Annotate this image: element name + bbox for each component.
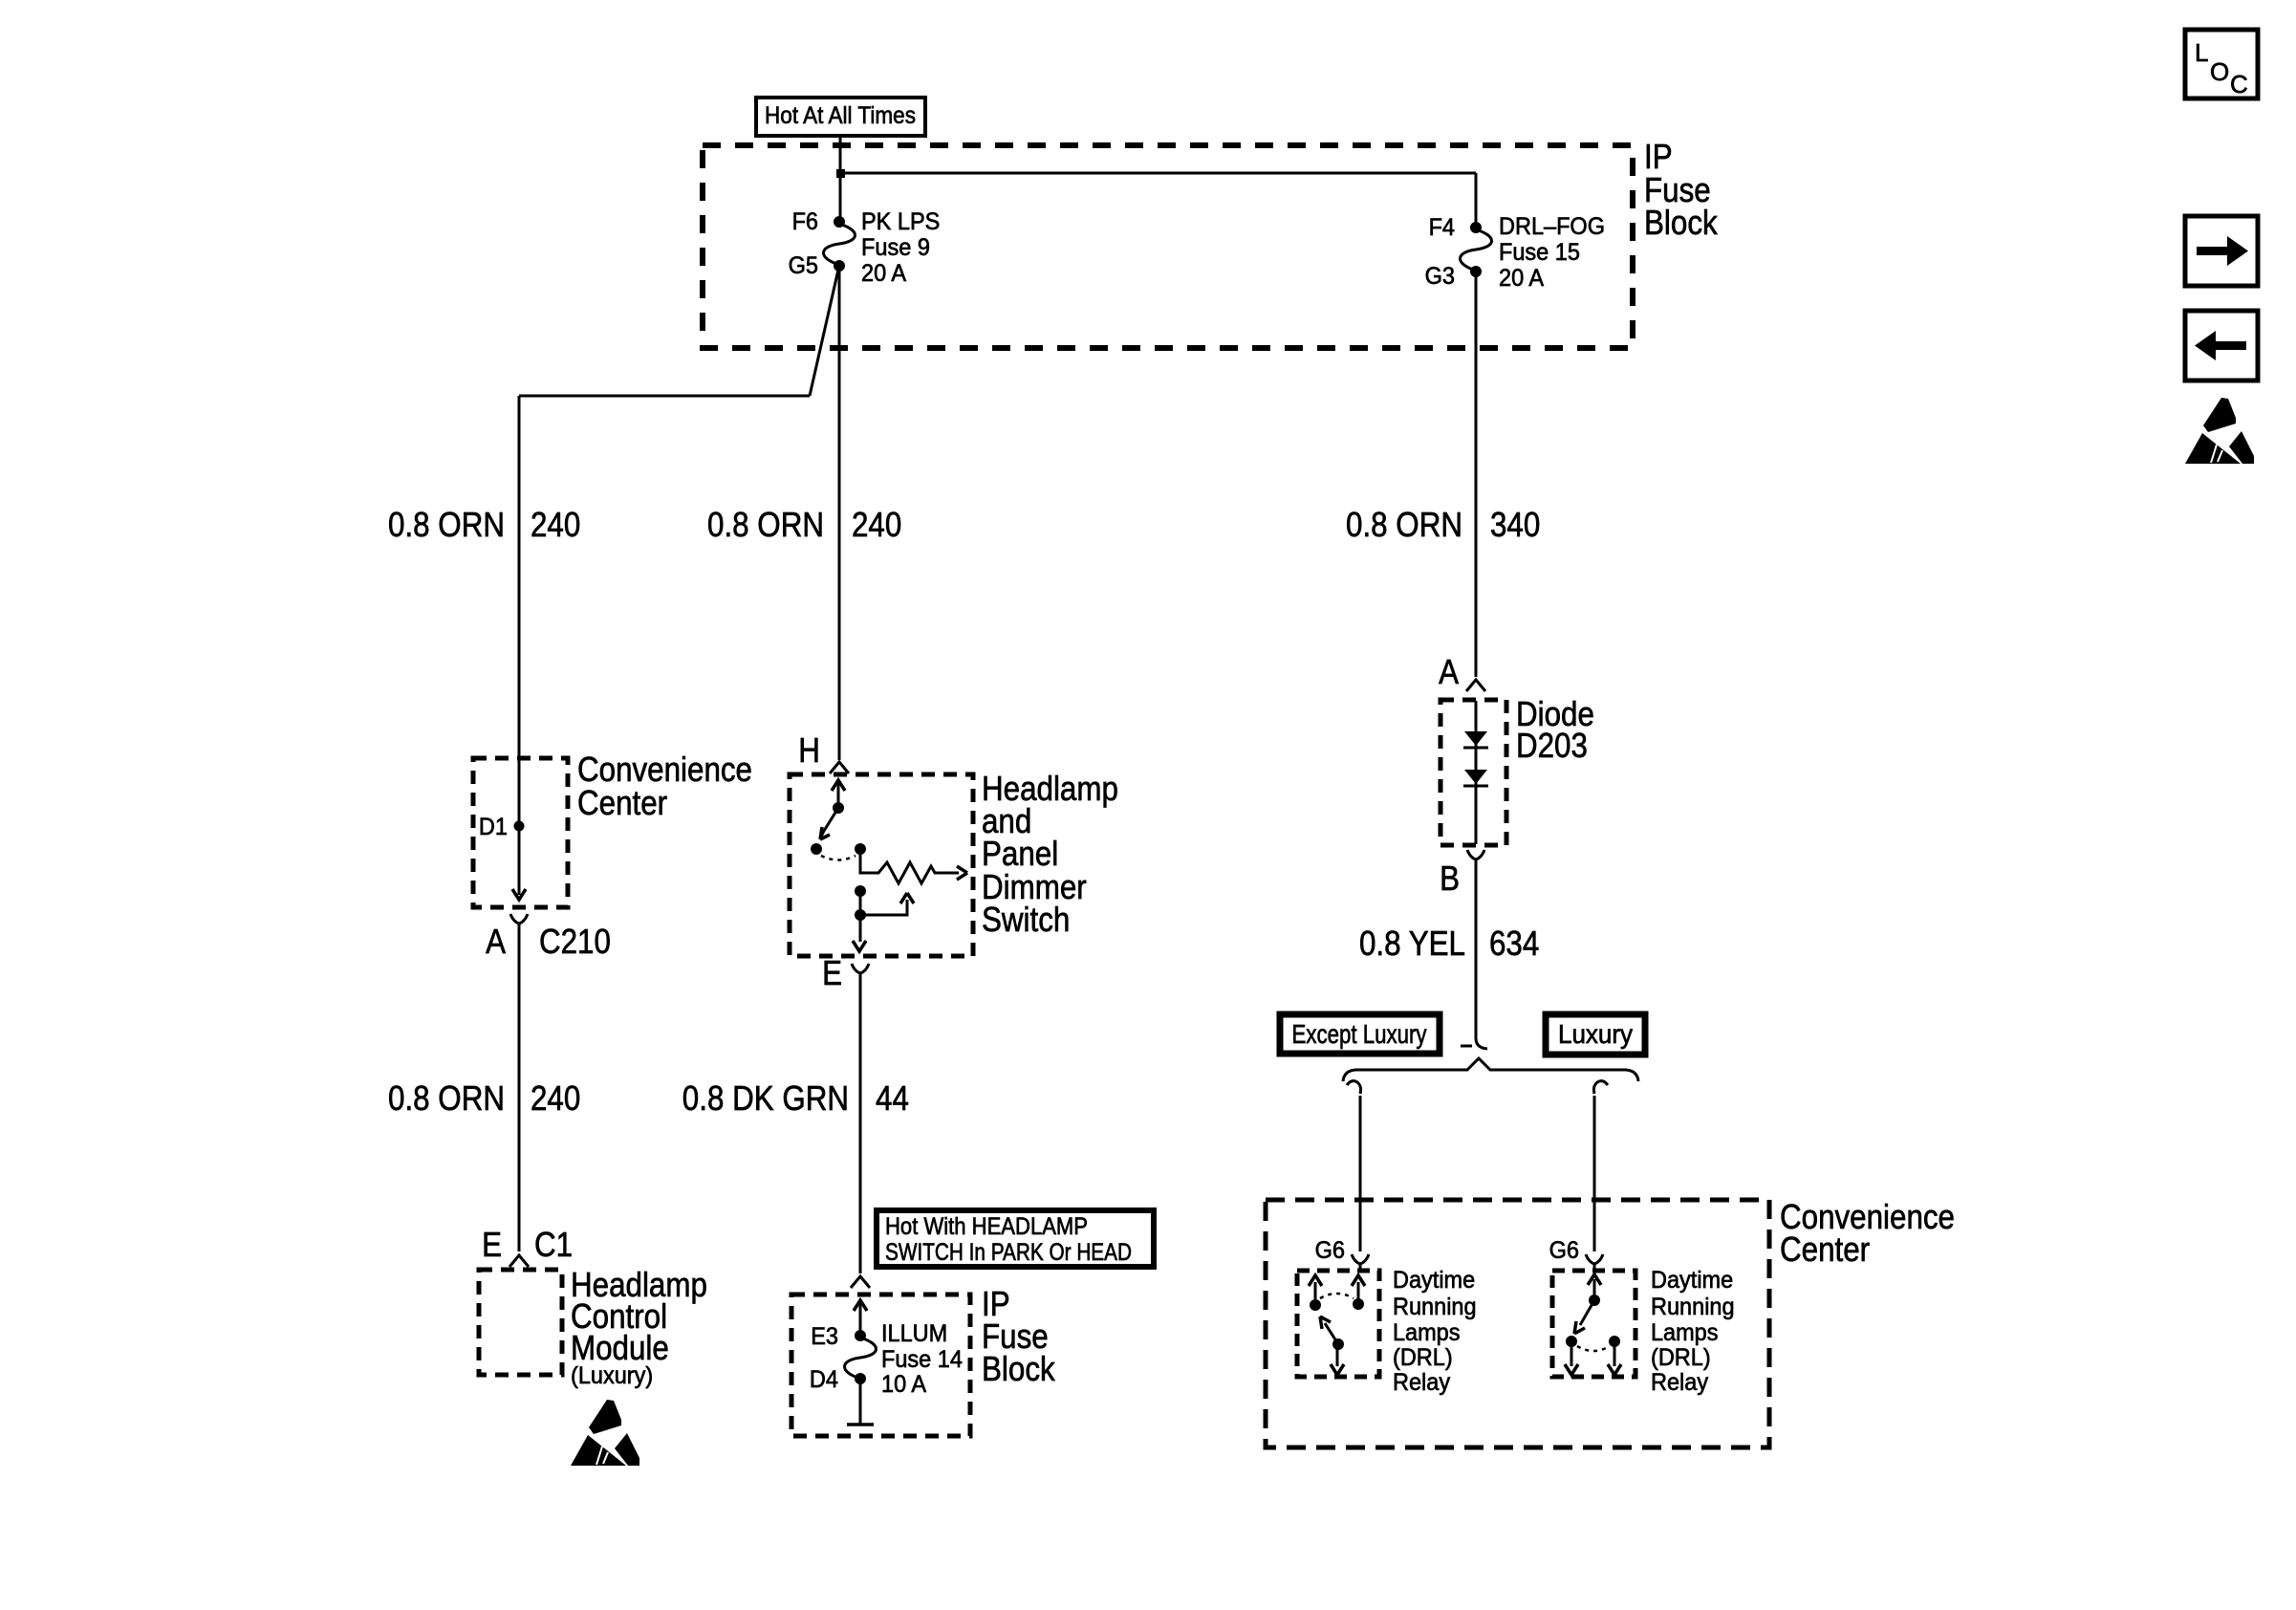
svg-text:Module: Module xyxy=(571,1328,669,1367)
switch pivot node xyxy=(833,802,844,814)
ESD symbol (right margin) xyxy=(2185,398,2254,464)
hook connector right branch xyxy=(1593,1081,1608,1094)
brace (selector) xyxy=(1343,1058,1638,1081)
svg-text:240: 240 xyxy=(531,1078,580,1118)
svg-text:0.8 ORN: 0.8 ORN xyxy=(707,505,824,544)
connector H (male) xyxy=(798,730,849,773)
dotted link arc xyxy=(1577,1346,1610,1351)
wire label 0.8 ORN 240 (center) xyxy=(707,505,901,544)
wire label 0.8 YEL 634 xyxy=(1359,924,1539,963)
svg-text:D203: D203 xyxy=(1516,726,1588,765)
wire label 0.8 ORN 340 (right) xyxy=(1346,505,1540,544)
svg-text:D1: D1 xyxy=(479,814,508,840)
wire from G5 down to H xyxy=(838,266,841,760)
relay left blade arrow xyxy=(1332,1338,1344,1350)
connector E C1 (male) xyxy=(482,1225,573,1267)
wire down from B xyxy=(1475,859,1478,1038)
svg-text:ILLUM: ILLUM xyxy=(881,1320,947,1347)
switch contact node right xyxy=(855,843,866,855)
IP Fuse Block (top) label xyxy=(1644,137,1719,242)
wire left branch to G6 xyxy=(1359,1096,1362,1251)
connector E (female, dimmer out) xyxy=(822,953,869,992)
svg-text:634: 634 xyxy=(1489,924,1539,963)
connector G6 left (female) xyxy=(1315,1237,1369,1272)
svg-text:Luxury: Luxury xyxy=(1558,1019,1633,1049)
DRL relay right label xyxy=(1651,1267,1735,1396)
connector B (female) xyxy=(1440,850,1484,898)
svg-text:F6: F6 xyxy=(792,208,818,235)
diode internal wire xyxy=(1475,701,1478,844)
Convenience Center (left) label xyxy=(577,750,752,822)
svg-text:A: A xyxy=(1439,652,1459,691)
ESD symbol (below module) xyxy=(571,1400,639,1466)
Diode D203 label xyxy=(1516,694,1594,765)
svg-text:G3: G3 xyxy=(1425,263,1455,290)
Headlamp Control Module label xyxy=(571,1265,707,1389)
svg-text:Daytime: Daytime xyxy=(1393,1267,1475,1294)
svg-text:Running: Running xyxy=(1651,1294,1735,1320)
terminal tick xyxy=(847,1423,874,1426)
arrow right icon box xyxy=(2185,216,2258,286)
diode 1 xyxy=(1464,731,1487,746)
svg-text:0.8 ORN: 0.8 ORN xyxy=(388,505,505,544)
Headlamp and Panel Dimmer Switch label xyxy=(982,769,1118,939)
wire from G3 down to A xyxy=(1475,272,1478,677)
svg-text:Fuse 15: Fuse 15 xyxy=(1499,239,1580,266)
svg-text:0.8 ORN: 0.8 ORN xyxy=(388,1078,505,1118)
svg-text:0.8 ORN: 0.8 ORN xyxy=(1346,505,1462,544)
svg-text:240: 240 xyxy=(531,505,580,544)
fuse F4/G3 DRL-FOG Fuse 15 20 A xyxy=(1425,213,1605,292)
svg-text:PK LPS: PK LPS xyxy=(861,208,940,235)
Diode D203 dashed box xyxy=(1440,700,1506,845)
relay left contact arrows up xyxy=(1314,1282,1317,1305)
svg-text:DRL–FOG: DRL–FOG xyxy=(1499,213,1605,240)
svg-text:Relay: Relay xyxy=(1393,1369,1451,1396)
svg-text:C210: C210 xyxy=(539,922,611,961)
svg-text:Running: Running xyxy=(1393,1294,1477,1320)
relay right terminal arrow up xyxy=(1593,1279,1596,1300)
switch contact node left xyxy=(811,843,822,855)
svg-text:10 A: 10 A xyxy=(881,1371,926,1398)
hook connector left branch xyxy=(1347,1081,1361,1094)
svg-text:Center: Center xyxy=(1780,1229,1870,1269)
svg-text:C: C xyxy=(2230,70,2248,98)
svg-text:20 A: 20 A xyxy=(1499,265,1544,292)
wire down from C210 xyxy=(518,924,521,1251)
svg-text:0.8 DK GRN: 0.8 DK GRN xyxy=(682,1078,849,1118)
IP Fuse Block (lower) dashed box xyxy=(791,1295,970,1436)
resistor (rheostat) xyxy=(860,849,959,883)
svg-text:E3: E3 xyxy=(811,1323,838,1350)
arrow down to E xyxy=(853,941,866,951)
relay left arrow down xyxy=(1336,1344,1339,1366)
svg-text:O: O xyxy=(2210,57,2229,86)
Convenience Center (left) dashed box xyxy=(473,758,568,907)
Headlamp Control Module dashed box xyxy=(479,1270,562,1375)
svg-text:Hot With HEADLAMP: Hot With HEADLAMP xyxy=(885,1213,1088,1240)
wire from Hot At All Times into fuse block xyxy=(839,136,842,222)
connector A C210 (female) xyxy=(486,914,611,961)
wire horizontal left branch xyxy=(519,395,810,398)
Convenience Center (right) label xyxy=(1780,1197,1955,1269)
wire down to F4 xyxy=(1475,173,1478,228)
svg-text:240: 240 xyxy=(852,505,901,544)
svg-text:0.8 YEL: 0.8 YEL xyxy=(1359,924,1465,963)
wire label 0.8 DK GRN 44 xyxy=(682,1078,909,1118)
IP Fuse Block (top) dashed box xyxy=(703,145,1633,348)
svg-text:Daytime: Daytime xyxy=(1651,1267,1733,1294)
svg-text:F4: F4 xyxy=(1429,214,1455,241)
Hot At All Times label box xyxy=(756,98,925,136)
svg-text:D4: D4 xyxy=(810,1366,838,1393)
connector G6 right (female) xyxy=(1549,1237,1603,1272)
DRL relay right dashed box xyxy=(1552,1271,1635,1377)
DRL relay left label xyxy=(1393,1267,1477,1396)
svg-text:Lamps: Lamps xyxy=(1393,1319,1461,1346)
svg-text:H: H xyxy=(798,730,820,770)
svg-text:Block: Block xyxy=(1644,203,1719,242)
svg-text:20 A: 20 A xyxy=(861,260,906,287)
wiper wire down xyxy=(859,891,862,942)
Headlamp and Panel Dimmer Switch dashed box xyxy=(790,774,973,956)
svg-text:A: A xyxy=(486,922,506,961)
Convenience Center (right) dashed box xyxy=(1266,1200,1769,1447)
wire left branch down xyxy=(518,396,521,895)
wiper arrow to resistor xyxy=(860,900,907,915)
svg-text:SWITCH In PARK Or HEAD: SWITCH In PARK Or HEAD xyxy=(885,1239,1132,1266)
relay right arrows down xyxy=(1570,1341,1573,1366)
svg-text:Lamps: Lamps xyxy=(1651,1319,1719,1346)
DRL relay left dashed box xyxy=(1297,1271,1379,1377)
svg-text:Hot At All Times: Hot At All Times xyxy=(765,102,916,129)
svg-text:Fuse 14: Fuse 14 xyxy=(881,1346,963,1373)
arrow down inside convenience center xyxy=(512,889,526,900)
wire down from dimmer xyxy=(859,973,862,1273)
svg-text:L: L xyxy=(2195,38,2208,67)
svg-text:(Luxury): (Luxury) xyxy=(571,1362,653,1389)
relay right contacts xyxy=(1566,1336,1577,1347)
Hot With HEADLAMP SWITCH In PARK Or HEAD label box xyxy=(877,1210,1154,1267)
dotted link arc xyxy=(821,856,856,860)
svg-text:G6: G6 xyxy=(1315,1237,1345,1264)
svg-text:G6: G6 xyxy=(1549,1237,1579,1264)
svg-text:B: B xyxy=(1440,859,1460,898)
connector into IP fuse block 2 (male) xyxy=(851,1276,870,1288)
connector A (male, diode) xyxy=(1439,652,1485,691)
svg-text:Except Luxury: Except Luxury xyxy=(1292,1019,1427,1049)
node D1 xyxy=(479,814,525,840)
switch terminal arrow up (H side) xyxy=(837,782,840,808)
wire right branch to G6 xyxy=(1593,1096,1596,1251)
svg-text:Center: Center xyxy=(577,783,667,822)
wire bus to right fuse xyxy=(840,172,1476,175)
wire label 0.8 ORN 240 (lower left) xyxy=(388,1078,580,1118)
svg-text:Fuse 9: Fuse 9 xyxy=(861,234,930,261)
LOC icon box xyxy=(2185,30,2258,98)
wiper node xyxy=(855,885,866,897)
svg-text:C1: C1 xyxy=(534,1225,573,1264)
arrow left icon box xyxy=(2185,311,2258,381)
svg-text:Block: Block xyxy=(982,1349,1056,1388)
switch blade arrow xyxy=(824,808,838,831)
svg-text:(DRL): (DRL) xyxy=(1651,1344,1711,1371)
dotted link arc xyxy=(1320,1294,1354,1298)
relay right blade arrow xyxy=(1580,1300,1594,1325)
svg-text:E: E xyxy=(482,1225,502,1264)
Except Luxury label box xyxy=(1280,1014,1440,1054)
Luxury label box xyxy=(1546,1014,1645,1055)
slanted wire from G5 to left branch xyxy=(810,270,838,396)
wire label 0.8 ORN 240 (left) xyxy=(388,505,580,544)
wire end curl at splice xyxy=(1476,1038,1487,1049)
svg-text:340: 340 xyxy=(1490,505,1540,544)
fuse F6/G5 PK LPS Fuse 9 20 A xyxy=(789,208,941,287)
svg-text:E: E xyxy=(822,953,842,992)
svg-text:G5: G5 xyxy=(789,252,818,279)
terminal arrow up inside fuse block xyxy=(859,1302,862,1336)
svg-text:(DRL): (DRL) xyxy=(1393,1344,1453,1371)
fuse E3/D4 ILLUM Fuse 14 10 A xyxy=(810,1320,963,1398)
node junction xyxy=(836,169,845,178)
svg-text:44: 44 xyxy=(876,1078,909,1118)
svg-text:Relay: Relay xyxy=(1651,1369,1709,1396)
IP Fuse Block (lower) label xyxy=(982,1284,1056,1388)
wire from D4 to terminal tick xyxy=(859,1379,862,1425)
svg-text:Switch: Switch xyxy=(982,900,1070,939)
diode 2 xyxy=(1464,770,1487,784)
